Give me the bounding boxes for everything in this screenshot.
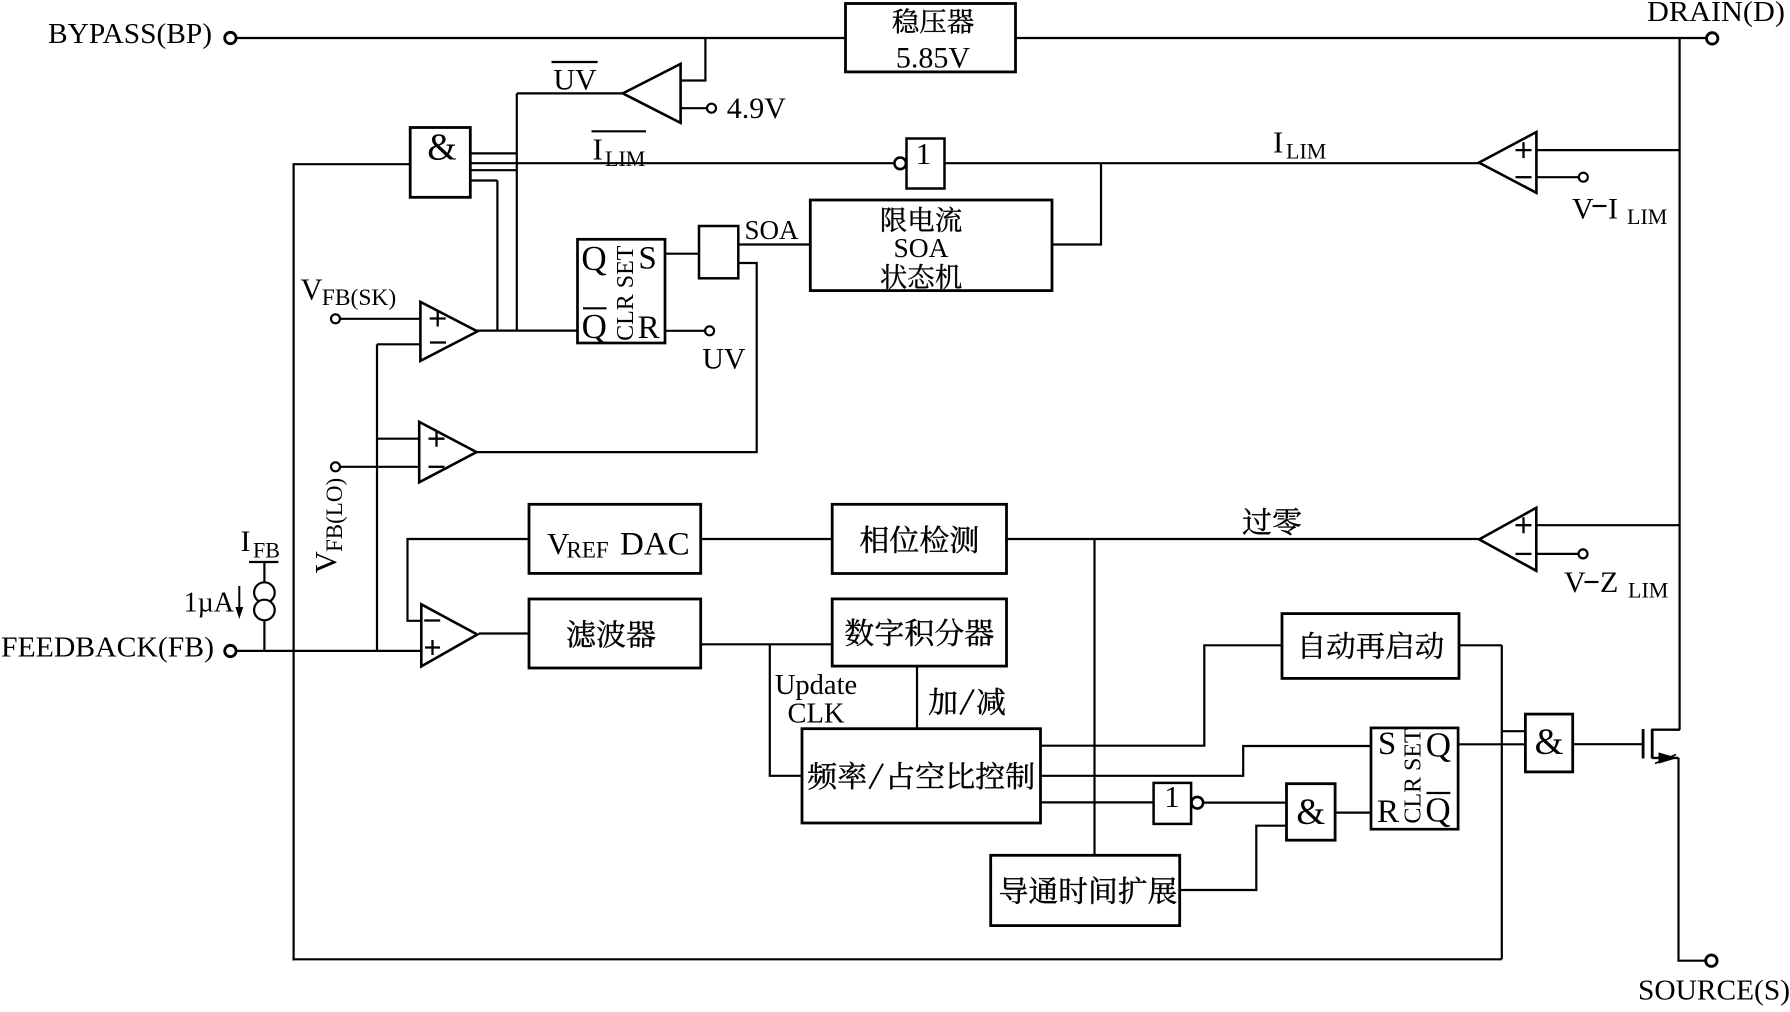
latch U2 SR (Q, Qbar, CLR SET, S, R): [578, 239, 666, 343]
wire ILIM-bar line: [470, 162, 893, 164]
wire UV comparator ref input: [681, 107, 707, 109]
wire error amp to filter: [479, 632, 529, 634]
svg-text:I: I: [241, 525, 251, 558]
svg-text:S: S: [1378, 726, 1396, 762]
wire BYPASS to regulator: [236, 37, 846, 39]
wire latch1 Qbar row: [476, 330, 577, 332]
wire and-gate stub C: [470, 169, 517, 171]
svg-text:SOA: SOA: [744, 215, 799, 245]
wire VFB(LO) to comparator: [340, 466, 419, 468]
wire FB rail to comp1 minus: [377, 343, 420, 345]
wire FB rail vertical: [376, 344, 378, 651]
svg-text:Q: Q: [1426, 726, 1451, 765]
svg-text:SOA: SOA: [893, 232, 948, 263]
svg-text:1: 1: [1164, 779, 1180, 814]
block phase detect 相位检测: [832, 504, 1006, 573]
wire BYPASS tap down to UV comparator: [681, 38, 706, 81]
error amplifier FB: [421, 604, 477, 666]
svg-text:&: &: [1296, 792, 1325, 833]
comparator zero cross V-ZLIM: [1479, 508, 1536, 571]
wire and-gate stub D: [470, 179, 497, 181]
wire auto-restart rail down: [1501, 645, 1503, 959]
svg-text:LIM: LIM: [1627, 204, 1667, 229]
wire and-gate left input from bottom rail: [294, 163, 411, 165]
terminal V-ZLIM ref: [1579, 549, 1588, 558]
svg-text:UV: UV: [702, 343, 746, 376]
terminal SOURCE(S): [1706, 955, 1717, 966]
wire freq out to latch2 S: [1041, 746, 1372, 776]
label VFB(LO) rotated: [308, 478, 347, 574]
svg-text:Q: Q: [1425, 791, 1450, 830]
svg-text:1µA: 1µA: [184, 588, 235, 619]
wire comparator FB(SK) output up: [496, 181, 498, 331]
svg-text:FB(SK): FB(SK): [322, 285, 396, 311]
wire DAC to error amp minus: [408, 539, 530, 621]
svg-text:V: V: [1572, 193, 1594, 226]
svg-text:REF: REF: [567, 538, 609, 563]
terminal 4.9V: [707, 104, 716, 113]
node vertical x=517: [516, 93, 518, 330]
wire and3 to mosfet gate: [1573, 743, 1643, 745]
label 加/减: [929, 688, 957, 715]
wire FB rail to comp2 plus: [377, 438, 419, 440]
wire V-ILIM minus input: [1536, 176, 1578, 178]
wire freq out to inverter: [1041, 801, 1154, 803]
comparator skip V_FB(SK): [420, 302, 477, 361]
terminal VFB(LO): [331, 462, 340, 471]
svg-text:I: I: [593, 132, 603, 167]
transistor Q1 power MOSFET: [1642, 729, 1645, 759]
svg-text:Update: Update: [775, 670, 857, 701]
wire auto-restart output: [1459, 644, 1502, 646]
wire V-ZLIM plus from drain rail: [1536, 524, 1679, 526]
terminal VFB(SK): [331, 314, 340, 323]
wire V-ILIM plus input from drain rail: [1536, 149, 1679, 151]
svg-text:FEEDBACK(FB): FEEDBACK(FB): [1, 632, 214, 664]
wire phase detect down to on-time extend: [1093, 539, 1095, 855]
wire regulator to DRAIN: [1016, 37, 1707, 39]
block SOA state machine 限电流 SOA 状态机: [810, 200, 1052, 291]
wire left rail down: [293, 163, 295, 960]
svg-text:R: R: [638, 310, 660, 346]
wire ILIM line right: [945, 162, 1480, 164]
wire latch1 S output: [665, 253, 699, 255]
svg-text:BYPASS(BP): BYPASS(BP): [48, 18, 212, 50]
block VREF DAC: [529, 504, 701, 573]
wire UV comparator output: [517, 92, 623, 94]
svg-text:LIM: LIM: [1628, 578, 1668, 603]
and-gate U3 &: [1287, 784, 1336, 841]
svg-text:V: V: [1564, 566, 1586, 599]
wire rail to and3 input: [1502, 730, 1526, 732]
svg-text:Z: Z: [1600, 566, 1618, 599]
wire SOA box right to ILIM line: [1052, 163, 1101, 244]
block frequency duty control 频率/占空比控制: [802, 729, 1041, 823]
svg-text:SOURCE(S): SOURCE(S): [1638, 975, 1790, 1007]
current source IFB 1uA: [249, 561, 278, 563]
wire on-time-extend to and2: [1180, 826, 1287, 890]
comparator low V_FB(LO): [419, 422, 476, 482]
wire update clk: [770, 644, 802, 776]
wire zero-cross line 过零: [1007, 538, 1480, 540]
svg-text:V: V: [301, 273, 323, 307]
svg-text:&: &: [1535, 722, 1564, 763]
wire drain rail: [1678, 38, 1680, 730]
wire bottom rail: [293, 958, 1502, 960]
terminal V-ILIM ref: [1579, 173, 1588, 182]
and-gate U5 &: [1525, 714, 1572, 772]
svg-text:CLR SET: CLR SET: [613, 245, 639, 341]
wire VFB(SK) to comparator: [340, 318, 420, 320]
wire DAC to phase detect: [701, 538, 833, 540]
label 过零: [1243, 508, 1271, 535]
block digital integrator 数字积分器: [832, 599, 1006, 666]
block auto restart 自动再启动: [1282, 614, 1459, 679]
comparator UV undervoltage: [623, 64, 681, 123]
svg-text:R: R: [1377, 794, 1399, 830]
svg-text:FB: FB: [253, 538, 280, 563]
junction box to SOA: [699, 226, 738, 278]
svg-text:DAC: DAC: [620, 527, 690, 563]
svg-text:V: V: [308, 551, 343, 574]
svg-text:UV: UV: [553, 64, 597, 97]
svg-text:CLK: CLK: [788, 699, 845, 730]
block filter 滤波器: [529, 599, 701, 668]
svg-text:1: 1: [916, 136, 932, 171]
svg-text:S: S: [638, 241, 656, 277]
wire filter to integrator: [701, 643, 833, 645]
wire and2 to latch2 R: [1335, 811, 1371, 813]
wire latch1 R input: [665, 330, 705, 332]
svg-text:I: I: [1273, 125, 1283, 160]
wire junction box to SOA box: [738, 243, 810, 245]
terminal UV reset: [705, 326, 714, 335]
svg-text:5.85V: 5.85V: [896, 42, 971, 75]
comparator current limit V-ILIM: [1479, 132, 1536, 193]
wire source down: [1679, 758, 1706, 961]
svg-text:DRAIN(D): DRAIN(D): [1647, 0, 1785, 28]
regulator box 稳压器 5.85V: [846, 4, 1016, 72]
svg-text:Q: Q: [582, 307, 607, 346]
wire latch2 Q to and3: [1458, 743, 1525, 745]
wire junction box lower to comparator FB(LO): [477, 263, 757, 452]
wire freq out to auto-restart: [1041, 645, 1283, 745]
inverter 1 box 2: [1154, 783, 1192, 824]
wire FEEDBACK line: [236, 650, 420, 652]
svg-text:&: &: [427, 127, 457, 169]
svg-text:4.9V: 4.9V: [727, 92, 787, 125]
latch U4 SR (S, R, CLR SET, Q, Qbar): [1371, 728, 1458, 829]
svg-text:I: I: [1608, 193, 1618, 226]
svg-text:CLR SET: CLR SET: [1401, 728, 1427, 824]
inverter 1 box on ILIM: [894, 158, 906, 170]
and-gate U1 &: [410, 128, 470, 198]
wire integrator down add/sub: [916, 666, 918, 729]
svg-text:LIM: LIM: [605, 146, 645, 171]
svg-text:Q: Q: [581, 239, 606, 278]
block on-time extension 导通时间扩展: [991, 855, 1180, 925]
wire V-ZLIM minus: [1536, 553, 1578, 555]
wire UV to and-gate stub: [470, 152, 517, 154]
svg-text:FB(LO): FB(LO): [322, 478, 347, 552]
svg-text:LIM: LIM: [1286, 139, 1326, 164]
wire inverter to and2: [1204, 801, 1287, 803]
